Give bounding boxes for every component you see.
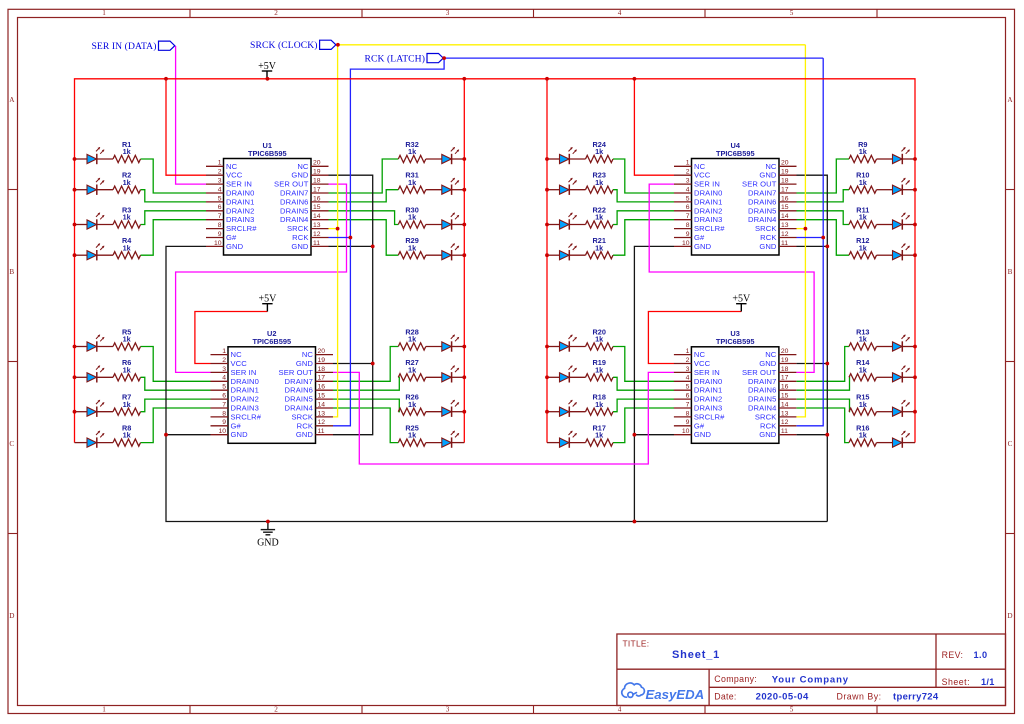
svg-text:REV:: REV: <box>942 650 964 660</box>
svg-text:SER OUT: SER OUT <box>742 368 777 377</box>
svg-text:NC: NC <box>302 350 314 359</box>
svg-text:DRAIN5: DRAIN5 <box>748 395 776 404</box>
svg-text:18: 18 <box>781 366 789 373</box>
svg-text:DRAIN0: DRAIN0 <box>231 377 259 386</box>
svg-text:1k: 1k <box>123 243 132 252</box>
svg-text:DRAIN6: DRAIN6 <box>748 197 776 206</box>
svg-text:GND: GND <box>291 171 309 180</box>
svg-text:1/1: 1/1 <box>981 677 995 687</box>
svg-text:1: 1 <box>102 706 106 714</box>
svg-text:DRAIN4: DRAIN4 <box>280 215 308 224</box>
svg-text:NC: NC <box>231 350 243 359</box>
svg-text:20: 20 <box>781 348 789 355</box>
svg-text:GND: GND <box>759 359 777 368</box>
svg-text:B: B <box>1008 268 1013 276</box>
svg-text:1k: 1k <box>408 243 417 252</box>
svg-text:1k: 1k <box>595 178 604 187</box>
svg-text:DRAIN3: DRAIN3 <box>694 215 722 224</box>
svg-text:12: 12 <box>313 231 321 238</box>
svg-text:C: C <box>1008 440 1013 448</box>
svg-text:8: 8 <box>686 410 690 417</box>
svg-text:1k: 1k <box>123 365 132 374</box>
svg-text:DRAIN7: DRAIN7 <box>285 377 313 386</box>
svg-text:Sheet_1: Sheet_1 <box>672 649 720 661</box>
svg-text:7: 7 <box>686 213 690 220</box>
svg-text:DRAIN2: DRAIN2 <box>226 206 254 215</box>
svg-text:11: 11 <box>313 240 320 247</box>
svg-text:15: 15 <box>318 393 326 400</box>
svg-text:19: 19 <box>313 169 321 176</box>
svg-text:1k: 1k <box>408 335 417 344</box>
svg-text:SRCLR#: SRCLR# <box>694 224 725 233</box>
svg-text:NC: NC <box>297 162 309 171</box>
svg-text:10: 10 <box>214 240 222 247</box>
svg-text:GND: GND <box>296 430 314 439</box>
svg-text:20: 20 <box>781 160 789 167</box>
svg-text:SER OUT: SER OUT <box>274 180 309 189</box>
svg-text:G#: G# <box>694 233 705 242</box>
svg-text:16: 16 <box>781 384 789 391</box>
svg-text:5: 5 <box>686 384 690 391</box>
svg-text:SRCK: SRCK <box>292 412 314 421</box>
svg-text:GND: GND <box>694 430 712 439</box>
svg-text:4: 4 <box>218 186 222 193</box>
svg-text:DRAIN2: DRAIN2 <box>694 395 722 404</box>
svg-text:Your Company: Your Company <box>772 675 849 686</box>
svg-text:RCK: RCK <box>760 233 776 242</box>
svg-text:15: 15 <box>313 204 321 211</box>
svg-text:19: 19 <box>781 357 789 364</box>
svg-text:SER IN (DATA): SER IN (DATA) <box>91 41 156 52</box>
svg-text:Drawn By:: Drawn By: <box>837 692 882 702</box>
svg-text:5: 5 <box>218 195 222 202</box>
svg-text:SRCLR#: SRCLR# <box>694 412 725 421</box>
svg-text:SER IN: SER IN <box>231 368 257 377</box>
svg-text:5: 5 <box>790 706 794 714</box>
svg-text:5: 5 <box>222 384 226 391</box>
svg-text:9: 9 <box>686 419 690 426</box>
svg-text:DRAIN2: DRAIN2 <box>694 206 722 215</box>
svg-text:GND: GND <box>296 359 314 368</box>
svg-text:4: 4 <box>618 9 622 17</box>
svg-text:1k: 1k <box>408 178 417 187</box>
svg-text:11: 11 <box>781 240 788 247</box>
svg-text:Company:: Company: <box>714 674 757 684</box>
svg-text:+5V: +5V <box>258 61 277 72</box>
svg-text:SER OUT: SER OUT <box>742 180 777 189</box>
svg-text:19: 19 <box>781 169 789 176</box>
svg-text:DRAIN6: DRAIN6 <box>280 197 308 206</box>
svg-text:G#: G# <box>694 421 705 430</box>
svg-text:DRAIN4: DRAIN4 <box>285 404 313 413</box>
svg-text:1k: 1k <box>595 213 604 222</box>
svg-text:RCK: RCK <box>292 233 308 242</box>
svg-text:1: 1 <box>218 160 222 167</box>
svg-text:18: 18 <box>781 178 789 185</box>
svg-text:TPIC6B595: TPIC6B595 <box>716 337 755 346</box>
svg-text:SRCK: SRCK <box>755 412 777 421</box>
svg-text:1.0: 1.0 <box>974 650 988 660</box>
svg-text:8: 8 <box>218 222 222 229</box>
svg-text:SER IN: SER IN <box>694 368 720 377</box>
svg-text:Sheet:: Sheet: <box>942 677 970 687</box>
svg-text:3: 3 <box>446 9 450 17</box>
svg-text:2020-05-04: 2020-05-04 <box>756 692 809 703</box>
svg-text:DRAIN4: DRAIN4 <box>748 404 776 413</box>
svg-text:9: 9 <box>686 231 690 238</box>
svg-text:14: 14 <box>781 401 789 408</box>
svg-text:tperry724: tperry724 <box>893 692 939 703</box>
svg-text:A: A <box>9 96 15 104</box>
svg-text:1: 1 <box>686 160 690 167</box>
svg-text:1k: 1k <box>123 147 132 156</box>
svg-text:DRAIN2: DRAIN2 <box>231 395 259 404</box>
svg-text:13: 13 <box>313 222 321 229</box>
svg-text:DRAIN1: DRAIN1 <box>226 197 254 206</box>
svg-text:VCC: VCC <box>231 359 248 368</box>
svg-text:G#: G# <box>231 421 242 430</box>
svg-text:16: 16 <box>318 384 326 391</box>
svg-text:1k: 1k <box>123 431 132 440</box>
svg-text:1k: 1k <box>123 213 132 222</box>
svg-text:3: 3 <box>686 366 690 373</box>
svg-text:1k: 1k <box>408 431 417 440</box>
svg-text:+5V: +5V <box>732 294 751 305</box>
svg-text:NC: NC <box>765 162 777 171</box>
svg-text:3: 3 <box>446 706 450 714</box>
svg-text:1k: 1k <box>859 335 868 344</box>
svg-text:RCK: RCK <box>760 421 776 430</box>
svg-text:DRAIN5: DRAIN5 <box>280 206 308 215</box>
svg-text:DRAIN5: DRAIN5 <box>285 395 313 404</box>
svg-text:1: 1 <box>102 9 106 17</box>
svg-text:12: 12 <box>781 231 789 238</box>
svg-text:14: 14 <box>313 213 321 220</box>
svg-text:8: 8 <box>222 410 226 417</box>
svg-text:G#: G# <box>226 233 237 242</box>
svg-text:16: 16 <box>313 195 321 202</box>
svg-text:20: 20 <box>318 348 326 355</box>
svg-text:7: 7 <box>218 213 222 220</box>
svg-text:DRAIN0: DRAIN0 <box>694 377 722 386</box>
svg-text:DRAIN7: DRAIN7 <box>748 377 776 386</box>
svg-text:5: 5 <box>790 9 794 17</box>
svg-text:3: 3 <box>686 178 690 185</box>
svg-text:SER IN: SER IN <box>694 180 720 189</box>
svg-text:6: 6 <box>218 204 222 211</box>
svg-text:DRAIN0: DRAIN0 <box>694 189 722 198</box>
svg-text:SRCK: SRCK <box>287 224 309 233</box>
svg-text:SRCK (CLOCK): SRCK (CLOCK) <box>250 40 318 51</box>
svg-text:4: 4 <box>222 375 226 382</box>
svg-text:GND: GND <box>226 242 244 251</box>
svg-text:18: 18 <box>318 366 326 373</box>
svg-text:13: 13 <box>781 222 789 229</box>
svg-text:SRCK: SRCK <box>755 224 777 233</box>
svg-text:1: 1 <box>222 348 226 355</box>
svg-text:1k: 1k <box>859 431 868 440</box>
svg-text:TPIC6B595: TPIC6B595 <box>716 149 755 158</box>
svg-text:2: 2 <box>274 9 278 17</box>
svg-text:16: 16 <box>781 195 789 202</box>
svg-text:6: 6 <box>222 393 226 400</box>
svg-text:D: D <box>1007 612 1012 620</box>
svg-text:GND: GND <box>257 538 279 549</box>
svg-text:6: 6 <box>686 393 690 400</box>
svg-text:15: 15 <box>781 393 789 400</box>
svg-text:1k: 1k <box>408 147 417 156</box>
svg-text:TITLE:: TITLE: <box>623 639 650 649</box>
svg-text:7: 7 <box>222 401 226 408</box>
svg-text:EasyEDA: EasyEDA <box>646 687 705 702</box>
svg-text:17: 17 <box>781 186 789 193</box>
svg-text:GND: GND <box>759 242 777 251</box>
svg-text:1k: 1k <box>859 213 868 222</box>
svg-text:VCC: VCC <box>694 171 711 180</box>
svg-text:NC: NC <box>226 162 238 171</box>
svg-text:3: 3 <box>218 178 222 185</box>
svg-text:DRAIN4: DRAIN4 <box>748 215 776 224</box>
svg-text:6: 6 <box>686 204 690 211</box>
svg-text:13: 13 <box>318 410 326 417</box>
svg-text:1k: 1k <box>123 335 132 344</box>
svg-text:1k: 1k <box>859 400 868 409</box>
svg-text:4: 4 <box>686 186 690 193</box>
svg-text:SRCLR#: SRCLR# <box>226 224 257 233</box>
svg-text:DRAIN6: DRAIN6 <box>748 386 776 395</box>
svg-text:SER OUT: SER OUT <box>279 368 314 377</box>
svg-text:17: 17 <box>313 186 321 193</box>
svg-text:2: 2 <box>222 357 226 364</box>
svg-text:9: 9 <box>218 231 222 238</box>
svg-text:TPIC6B595: TPIC6B595 <box>248 149 287 158</box>
svg-text:1k: 1k <box>123 178 132 187</box>
svg-text:DRAIN5: DRAIN5 <box>748 206 776 215</box>
svg-text:1k: 1k <box>595 365 604 374</box>
svg-text:VCC: VCC <box>694 359 711 368</box>
svg-text:11: 11 <box>781 428 788 435</box>
svg-text:2: 2 <box>218 169 222 176</box>
svg-text:NC: NC <box>694 350 706 359</box>
svg-text:GND: GND <box>291 242 309 251</box>
svg-text:+5V: +5V <box>258 294 277 305</box>
svg-text:4: 4 <box>686 375 690 382</box>
svg-text:DRAIN1: DRAIN1 <box>694 197 722 206</box>
svg-text:1k: 1k <box>595 147 604 156</box>
svg-text:3: 3 <box>222 366 226 373</box>
svg-text:1k: 1k <box>408 400 417 409</box>
svg-text:RCK: RCK <box>297 421 313 430</box>
svg-text:2: 2 <box>686 169 690 176</box>
svg-text:12: 12 <box>781 419 789 426</box>
svg-text:13: 13 <box>781 410 789 417</box>
svg-text:1k: 1k <box>595 335 604 344</box>
svg-text:17: 17 <box>318 375 326 382</box>
svg-text:9: 9 <box>222 419 226 426</box>
svg-text:17: 17 <box>781 375 789 382</box>
svg-text:20: 20 <box>313 160 321 167</box>
svg-text:DRAIN1: DRAIN1 <box>694 386 722 395</box>
svg-text:1k: 1k <box>408 365 417 374</box>
svg-text:DRAIN3: DRAIN3 <box>226 215 254 224</box>
svg-text:18: 18 <box>313 178 321 185</box>
svg-text:1k: 1k <box>595 243 604 252</box>
svg-text:1k: 1k <box>859 365 868 374</box>
svg-text:2: 2 <box>686 357 690 364</box>
svg-text:8: 8 <box>686 222 690 229</box>
svg-text:D: D <box>9 612 14 620</box>
svg-text:SRCLR#: SRCLR# <box>231 412 262 421</box>
svg-text:B: B <box>9 268 14 276</box>
svg-text:2: 2 <box>274 706 278 714</box>
svg-text:RCK (LATCH): RCK (LATCH) <box>364 53 425 64</box>
svg-text:1k: 1k <box>859 178 868 187</box>
svg-text:14: 14 <box>318 401 326 408</box>
svg-text:DRAIN3: DRAIN3 <box>231 404 259 413</box>
svg-text:GND: GND <box>759 171 777 180</box>
svg-text:TPIC6B595: TPIC6B595 <box>252 337 291 346</box>
svg-text:7: 7 <box>686 401 690 408</box>
svg-text:Date:: Date: <box>714 692 736 702</box>
svg-text:5: 5 <box>686 195 690 202</box>
svg-text:15: 15 <box>781 204 789 211</box>
svg-text:12: 12 <box>318 419 326 426</box>
svg-text:GND: GND <box>759 430 777 439</box>
svg-text:A: A <box>1007 96 1013 104</box>
svg-text:10: 10 <box>682 240 690 247</box>
svg-text:VCC: VCC <box>226 171 243 180</box>
svg-text:1k: 1k <box>859 147 868 156</box>
svg-text:DRAIN0: DRAIN0 <box>226 189 254 198</box>
svg-text:NC: NC <box>694 162 706 171</box>
svg-text:DRAIN1: DRAIN1 <box>231 386 259 395</box>
svg-text:GND: GND <box>231 430 249 439</box>
svg-text:1k: 1k <box>123 400 132 409</box>
svg-text:DRAIN6: DRAIN6 <box>285 386 313 395</box>
svg-text:1k: 1k <box>595 431 604 440</box>
svg-text:SER IN: SER IN <box>226 180 252 189</box>
svg-text:1: 1 <box>686 348 690 355</box>
svg-text:NC: NC <box>765 350 777 359</box>
svg-text:DRAIN7: DRAIN7 <box>748 189 776 198</box>
svg-text:10: 10 <box>682 428 690 435</box>
svg-text:DRAIN3: DRAIN3 <box>694 404 722 413</box>
svg-text:4: 4 <box>618 706 622 714</box>
svg-text:10: 10 <box>218 428 226 435</box>
svg-text:1k: 1k <box>408 213 417 222</box>
svg-text:DRAIN7: DRAIN7 <box>280 189 308 198</box>
svg-text:1k: 1k <box>859 243 868 252</box>
svg-text:C: C <box>9 440 14 448</box>
svg-text:11: 11 <box>318 428 325 435</box>
svg-text:GND: GND <box>694 242 712 251</box>
svg-text:14: 14 <box>781 213 789 220</box>
svg-text:19: 19 <box>318 357 326 364</box>
svg-text:1k: 1k <box>595 400 604 409</box>
